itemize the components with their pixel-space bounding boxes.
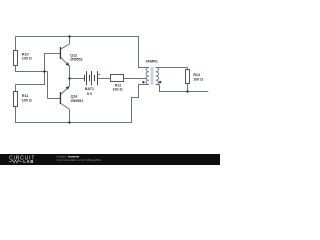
wire Q16 emitter riser	[69, 79, 71, 86]
footer bar	[0, 154, 220, 165]
wire bottom rail to primary bottom	[131, 85, 149, 124]
wire top rail	[16, 37, 149, 68]
junction emitters / battery	[68, 77, 70, 79]
resistor R11	[14, 92, 32, 107]
transistor Q16	[60, 86, 83, 109]
resistor R13	[186, 70, 204, 84]
svg-text:http://circuitlab.com/c/7d6ngj: http://circuitlab.com/c/7d6ngjub5x	[57, 158, 102, 162]
wire node A to Q16 base	[45, 72, 60, 99]
wire Q16 collector riser	[69, 109, 71, 122]
wire R12 to transformer	[124, 78, 147, 80]
wire Q12 base	[44, 54, 60, 72]
svg-text:R13: R13	[193, 73, 200, 77]
resistor R12	[111, 75, 124, 92]
wire secondary bottom	[156, 85, 209, 92]
svg-text:100 Ω: 100 Ω	[22, 57, 32, 61]
svg-text:BAT1: BAT1	[85, 87, 94, 91]
junction R13 / secondary bottom	[186, 90, 188, 92]
wire R10 top lead	[15, 37, 17, 51]
wire emitters to battery	[70, 78, 85, 80]
svg-text:100 Ω: 100 Ω	[22, 99, 32, 103]
svg-text:Q16: Q16	[71, 94, 78, 98]
junction Q12 collector / top rail	[68, 35, 70, 37]
svg-text:100 Ω: 100 Ω	[193, 78, 203, 82]
svg-text:100 Ω: 100 Ω	[113, 88, 123, 92]
wire R10 bottom to node A	[15, 66, 45, 72]
wire R11 bottom lead	[15, 107, 17, 124]
wire bottom rail	[15, 122, 132, 124]
junction node A	[43, 70, 45, 72]
svg-text:LAB: LAB	[23, 159, 34, 164]
battery BAT1	[85, 71, 98, 85]
svg-text:2N5551: 2N5551	[70, 58, 83, 62]
transistor Q12	[60, 44, 83, 66]
svg-text:R11: R11	[22, 94, 28, 98]
svg-text:2N5551: 2N5551	[71, 99, 84, 103]
wire Q12 collector riser	[69, 37, 71, 44]
wire R13 bottom lead	[187, 84, 189, 92]
wire battery to R12	[98, 78, 111, 80]
wire node A to R11	[16, 72, 46, 92]
CircuitLab logo	[9, 156, 35, 164]
svg-text:9 V: 9 V	[87, 92, 93, 96]
wire Q12 emitter riser	[69, 66, 71, 78]
svg-text:XFMR1: XFMR1	[145, 60, 157, 64]
transformer XFMR1	[142, 60, 161, 85]
resistor R10	[14, 51, 32, 66]
wire secondary top to R13	[156, 68, 188, 70]
junction Q16 collector / bottom rail	[68, 121, 70, 123]
